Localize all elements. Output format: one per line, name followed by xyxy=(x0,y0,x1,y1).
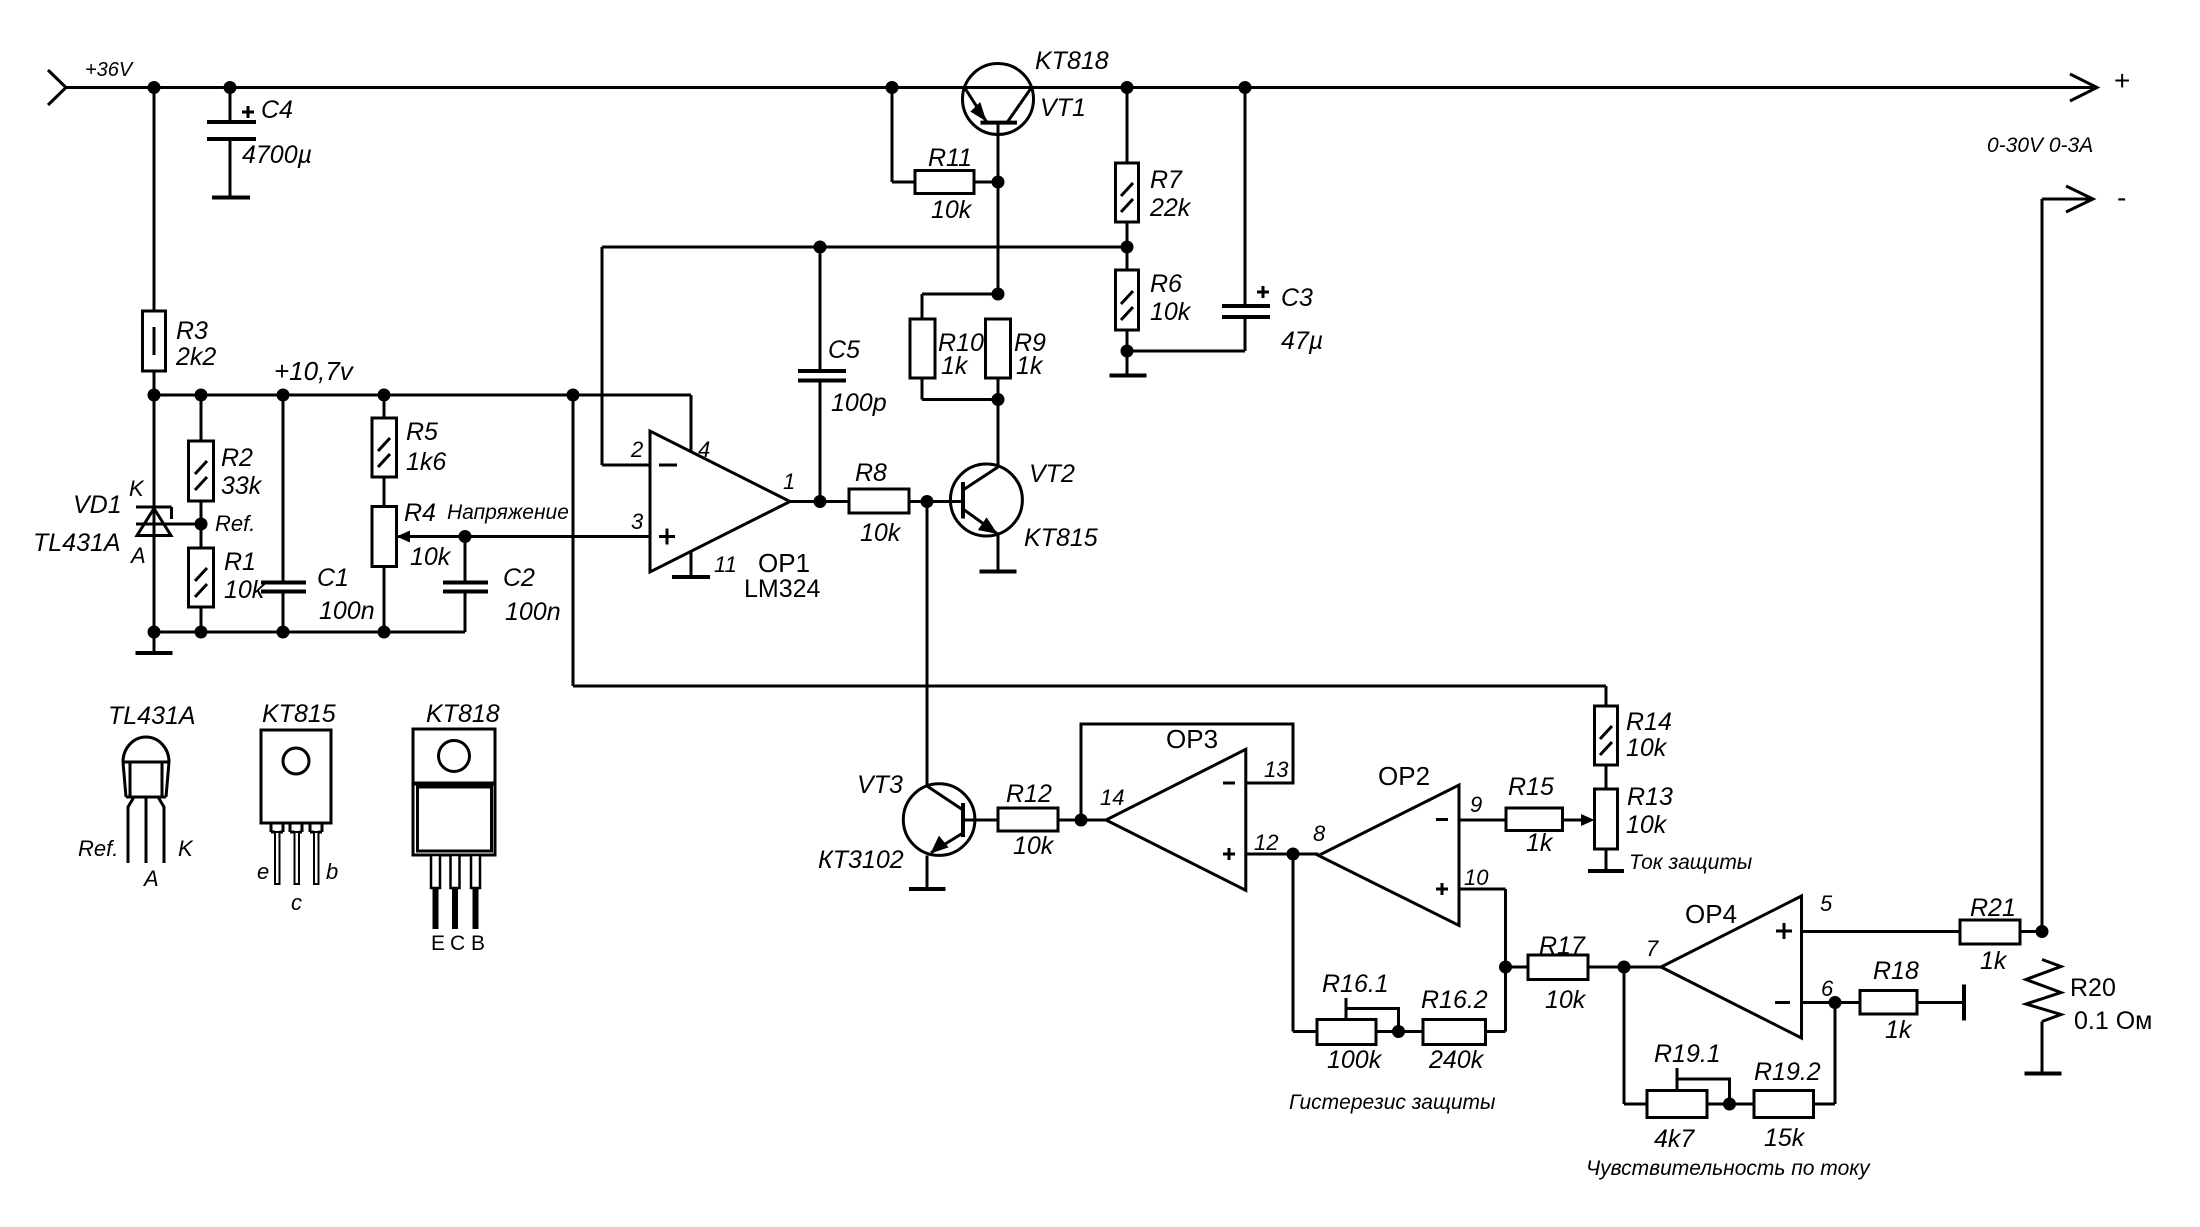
svg-text:100p: 100p xyxy=(831,389,887,417)
svg-text:5: 5 xyxy=(1820,891,1833,916)
svg-text:C1: C1 xyxy=(317,564,349,592)
svg-text:12: 12 xyxy=(1254,830,1278,855)
svg-text:11: 11 xyxy=(714,552,737,577)
svg-text:10k: 10k xyxy=(1545,986,1587,1014)
svg-text:VD1: VD1 xyxy=(73,491,122,519)
svg-text:OP4: OP4 xyxy=(1685,899,1737,929)
svg-text:1k: 1k xyxy=(941,352,969,380)
svg-text:R14: R14 xyxy=(1626,708,1672,736)
svg-text:10k: 10k xyxy=(1626,734,1668,762)
svg-text:R16.2: R16.2 xyxy=(1421,986,1488,1014)
svg-text:C3: C3 xyxy=(1281,284,1313,312)
svg-text:R1: R1 xyxy=(224,548,256,576)
svg-text:OP3: OP3 xyxy=(1166,724,1218,754)
svg-text:A: A xyxy=(129,543,146,568)
svg-text:1: 1 xyxy=(783,469,795,494)
svg-text:3: 3 xyxy=(631,509,644,534)
svg-text:22k: 22k xyxy=(1149,194,1192,222)
svg-text:Ref.: Ref. xyxy=(78,836,118,861)
svg-text:R17: R17 xyxy=(1539,932,1586,960)
svg-text:13: 13 xyxy=(1264,757,1289,782)
svg-text:9: 9 xyxy=(1470,792,1482,817)
svg-text:10k: 10k xyxy=(1150,298,1192,326)
svg-text:7: 7 xyxy=(1646,936,1659,961)
svg-text:LM324: LM324 xyxy=(744,575,821,603)
svg-text:KT815: KT815 xyxy=(1024,524,1098,552)
svg-text:1k: 1k xyxy=(1885,1016,1913,1044)
svg-text:R4: R4 xyxy=(404,499,436,527)
svg-text:R13: R13 xyxy=(1627,783,1673,811)
svg-text:OP1: OP1 xyxy=(758,548,810,578)
svg-text:1k: 1k xyxy=(1526,829,1554,857)
svg-text:C2: C2 xyxy=(503,564,535,592)
svg-text:C: C xyxy=(450,932,465,955)
svg-text:C4: C4 xyxy=(261,96,293,124)
svg-text:R15: R15 xyxy=(1508,773,1554,801)
svg-text:+10,7v: +10,7v xyxy=(274,356,355,386)
svg-text:4700µ: 4700µ xyxy=(242,141,312,169)
svg-text:Гистерезис защиты: Гистерезис защиты xyxy=(1289,1091,1496,1114)
svg-text:VT1: VT1 xyxy=(1040,94,1086,122)
svg-text:R19.2: R19.2 xyxy=(1754,1058,1821,1086)
svg-text:R11: R11 xyxy=(928,144,972,172)
svg-text:E: E xyxy=(431,932,445,955)
svg-text:2k2: 2k2 xyxy=(175,343,216,371)
svg-text:R18: R18 xyxy=(1873,957,1919,985)
svg-text:B: B xyxy=(471,932,485,955)
svg-text:R7: R7 xyxy=(1150,166,1183,194)
svg-text:10k: 10k xyxy=(860,519,902,547)
svg-text:0.1 Ом: 0.1 Ом xyxy=(2074,1007,2152,1035)
svg-text:240k: 240k xyxy=(1428,1046,1485,1074)
svg-text:14: 14 xyxy=(1100,785,1124,810)
svg-text:2: 2 xyxy=(630,437,643,462)
svg-text:1k6: 1k6 xyxy=(406,448,446,476)
svg-text:Ток защиты: Ток защиты xyxy=(1629,851,1753,874)
svg-text:1k: 1k xyxy=(1980,947,2008,975)
svg-text:OP2: OP2 xyxy=(1378,761,1430,791)
svg-text:Чувствительность по току: Чувствительность по току xyxy=(1586,1157,1871,1180)
svg-text:R8: R8 xyxy=(855,459,887,487)
svg-text:4k7: 4k7 xyxy=(1654,1125,1695,1153)
svg-text:TL431A: TL431A xyxy=(108,702,196,730)
svg-text:A: A xyxy=(142,866,159,891)
svg-text:10k: 10k xyxy=(224,576,266,604)
svg-text:R12: R12 xyxy=(1006,780,1052,808)
svg-text:R20: R20 xyxy=(2070,974,2116,1002)
svg-text:R2: R2 xyxy=(221,444,253,472)
svg-text:+36V: +36V xyxy=(85,59,134,81)
svg-text:VT2: VT2 xyxy=(1029,460,1075,488)
svg-text:K: K xyxy=(129,476,145,501)
svg-text:R16.1: R16.1 xyxy=(1322,970,1389,998)
svg-text:TL431A: TL431A xyxy=(33,529,121,557)
svg-text:33k: 33k xyxy=(221,472,263,500)
svg-text:10: 10 xyxy=(1464,865,1489,890)
svg-text:R5: R5 xyxy=(406,418,438,446)
svg-text:15k: 15k xyxy=(1764,1124,1806,1152)
svg-text:c: c xyxy=(291,890,302,915)
svg-text:KT815: KT815 xyxy=(262,700,336,728)
svg-text:Ref.: Ref. xyxy=(215,511,255,536)
svg-text:0-30V 0-3A: 0-30V 0-3A xyxy=(1987,134,2093,157)
svg-text:Напряжение: Напряжение xyxy=(447,501,569,524)
svg-text:10k: 10k xyxy=(410,543,452,571)
svg-text:100k: 100k xyxy=(1327,1046,1383,1074)
svg-text:47µ: 47µ xyxy=(1281,327,1323,355)
svg-text:KT818: KT818 xyxy=(426,700,500,728)
svg-text:+: + xyxy=(2114,65,2130,96)
svg-text:C5: C5 xyxy=(828,336,860,364)
svg-text:e: e xyxy=(257,859,269,884)
svg-text:R21: R21 xyxy=(1970,894,2016,922)
svg-text:6: 6 xyxy=(1821,976,1834,1001)
svg-text:VT3: VT3 xyxy=(857,771,903,799)
svg-text:8: 8 xyxy=(1313,821,1326,846)
svg-text:KT818: KT818 xyxy=(1035,47,1109,75)
svg-text:K: K xyxy=(178,836,194,861)
svg-text:1k: 1k xyxy=(1016,352,1044,380)
svg-text:b: b xyxy=(326,859,338,884)
svg-text:-: - xyxy=(2117,182,2126,213)
svg-text:КТ3102: КТ3102 xyxy=(818,846,904,874)
svg-text:R3: R3 xyxy=(176,317,208,345)
svg-text:10k: 10k xyxy=(1013,832,1055,860)
svg-text:R19.1: R19.1 xyxy=(1654,1040,1721,1068)
svg-text:10k: 10k xyxy=(931,196,973,224)
svg-text:10k: 10k xyxy=(1626,811,1668,839)
svg-text:100n: 100n xyxy=(505,598,561,626)
svg-text:R6: R6 xyxy=(1150,270,1182,298)
svg-text:100n: 100n xyxy=(319,597,375,625)
svg-text:4: 4 xyxy=(698,437,710,462)
